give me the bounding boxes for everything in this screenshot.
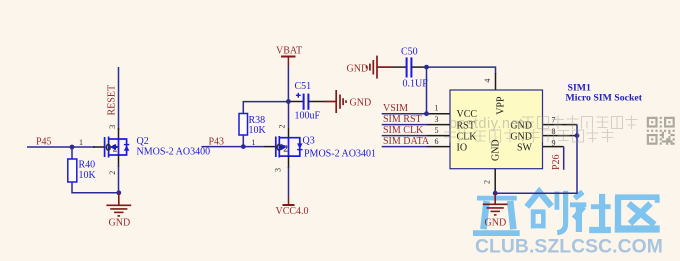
svg-text:3: 3: [108, 125, 117, 129]
wire Q3 drain stub: [288, 156, 290, 168]
node P45-R40 junction: [70, 145, 75, 150]
wire R38 bottom: [242, 135, 244, 147]
wire P43: [202, 146, 265, 148]
svg-text:VBAT: VBAT: [276, 46, 302, 57]
wire P45: [27, 146, 95, 148]
svg-text:2: 2: [113, 144, 118, 154]
ground GND (right of C51): [325, 90, 347, 113]
power VCC4.0: [288, 197, 290, 205]
transistor Q2: [105, 137, 130, 158]
svg-text:CLUB.SZLCSC.COM: CLUB.SZLCSC.COM: [475, 237, 663, 258]
wire SIM_DATA: [382, 146, 427, 148]
node pin8 junction: [575, 133, 580, 138]
svg-text:GND: GND: [485, 217, 507, 228]
svg-text:P45: P45: [36, 137, 52, 148]
svg-text:RESET: RESET: [107, 85, 118, 116]
watermark big LI (vector CJK): [473, 198, 520, 233]
resistor R38: [239, 114, 267, 137]
watermark gray line 1 (bestdiy.net + CJK approx): [449, 116, 638, 133]
IC SIM1 Micro SIM socket body: [450, 90, 543, 169]
wire SIM_RST: [382, 124, 427, 126]
svg-text:2: 2: [483, 180, 492, 184]
wire P26 net stub: [563, 147, 565, 170]
wire R40 top: [71, 147, 73, 159]
node gnd junction SIM: [493, 191, 498, 196]
Q3 inner dark marks: [277, 144, 281, 150]
svg-text:R40: R40: [79, 160, 96, 171]
wire Q3 drain down: [288, 167, 290, 197]
ground GND (under Q2): [106, 193, 131, 216]
svg-text:2: 2: [283, 144, 288, 154]
svg-text:IO: IO: [457, 143, 468, 154]
svg-text:P26: P26: [551, 154, 562, 170]
svg-text:10K: 10K: [79, 170, 97, 181]
svg-text:C50: C50: [401, 47, 418, 58]
svg-text:GND: GND: [109, 218, 131, 229]
watermark big CHUANG (vector CJK): [527, 191, 566, 233]
svg-text:0.1UF: 0.1UF: [403, 79, 429, 90]
watermark big SHE (vector CJK): [570, 192, 611, 232]
transistor Q3: [276, 136, 303, 158]
wire pin2 stub: [494, 169, 496, 194]
svg-text:3: 3: [274, 168, 283, 172]
wire C50 down to VSIM: [426, 67, 428, 114]
node C50 junction: [424, 65, 429, 70]
svg-text:VSIM: VSIM: [383, 103, 408, 114]
wire R40 bottom to gnd junction: [72, 182, 119, 193]
svg-text:3: 3: [435, 115, 439, 124]
svg-text:Q3: Q3: [303, 136, 315, 147]
wire C50 to pin4: [427, 67, 496, 74]
svg-text:Micro SIM Socket: Micro SIM Socket: [566, 93, 643, 104]
QR code watermark: [647, 117, 675, 145]
wire pin8 stub: [543, 135, 577, 137]
svg-text:SIM RST: SIM RST: [383, 114, 422, 125]
svg-text:P43: P43: [209, 137, 225, 148]
wire Q3 source stub: [288, 103, 290, 128]
svg-text:bestdiy.net: bestdiy.net: [449, 116, 524, 132]
svg-text:6: 6: [435, 137, 439, 146]
ground GND (under SIM): [483, 193, 508, 215]
wire Q3 gate stub: [264, 146, 275, 148]
watermark big QU (vector CJK): [615, 197, 660, 230]
svg-text:2: 2: [277, 125, 286, 129]
wire Q2 gate stub: [93, 146, 104, 148]
resistor R40: [68, 159, 97, 182]
svg-text:NMOS-2 AO3400: NMOS-2 AO3400: [137, 147, 211, 158]
svg-text:2: 2: [108, 171, 117, 175]
svg-text:5: 5: [435, 126, 439, 135]
wire VBAT down: [287, 66, 289, 102]
wire VSIM: [382, 113, 427, 115]
svg-text:VCC4.0: VCC4.0: [276, 206, 309, 217]
wire Q2 source to gnd: [118, 166, 120, 193]
svg-text:1: 1: [79, 138, 83, 147]
node P43 junction: [241, 144, 246, 149]
svg-text:VPP: VPP: [495, 96, 506, 115]
capacitor C51: [291, 81, 325, 122]
node VSIM junction: [424, 111, 429, 116]
svg-text:GND: GND: [491, 139, 502, 161]
svg-text:Q2: Q2: [137, 136, 149, 147]
wire Q2 source stub: [118, 155, 120, 167]
wire SIM_CLK: [382, 135, 427, 137]
wire Q2 drain stub: [118, 128, 120, 139]
node gnd junction Q2: [116, 190, 121, 195]
wire pin4 stub: [495, 73, 497, 90]
svg-text:GND: GND: [347, 64, 369, 75]
svg-text:SW: SW: [517, 143, 533, 154]
svg-text:SIM DATA: SIM DATA: [383, 136, 430, 147]
svg-text:1: 1: [435, 104, 439, 113]
svg-text:PMOS-2 AO3401: PMOS-2 AO3401: [304, 149, 376, 160]
wire RESET vertical: [118, 67, 120, 130]
watermark gray line 2 (CJK approx): [444, 129, 614, 143]
capacitor C50: [392, 47, 428, 90]
svg-text:10K: 10K: [249, 125, 267, 136]
wire R38 top: [243, 102, 288, 114]
wire pin7 stub: [543, 124, 577, 126]
wire pin9 stub: [543, 146, 564, 148]
node VBAT junction: [286, 99, 291, 104]
svg-text:1: 1: [252, 138, 256, 147]
svg-text:100uF: 100uF: [295, 111, 321, 122]
svg-text:GND: GND: [350, 98, 372, 109]
svg-text:4: 4: [483, 79, 492, 83]
svg-text:SIM CLK: SIM CLK: [383, 125, 424, 136]
wire right bus down: [495, 125, 577, 194]
Q2 inner dark marks: [106, 144, 110, 150]
svg-text:C51: C51: [295, 81, 312, 92]
